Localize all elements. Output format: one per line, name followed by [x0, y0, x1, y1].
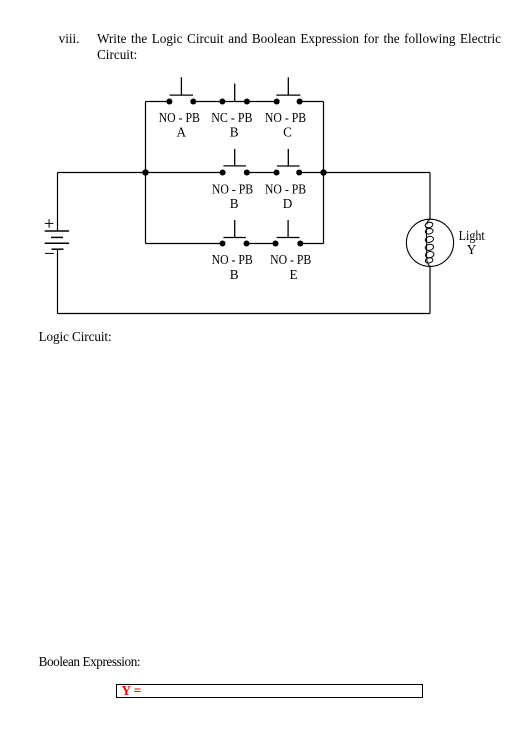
push button NO-PB E — [273, 220, 304, 247]
push button NC-PB B (top) — [219, 84, 250, 105]
push button NO-PB B (middle) — [220, 149, 250, 176]
header line 1 justified — [97, 31, 501, 46]
svg-text:C: C — [283, 124, 292, 139]
battery B1 — [45, 219, 69, 253]
svg-text:Y: Y — [467, 242, 477, 257]
push button NO-PB A — [166, 77, 196, 104]
wire: right junction to light — [324, 172, 431, 174]
answer box — [116, 684, 424, 698]
header line 2 — [97, 47, 137, 62]
svg-text:NO - PB: NO - PB — [270, 252, 311, 267]
light Y coil — [425, 219, 435, 266]
label Y= — [122, 684, 142, 697]
wire: middle rung segment 2 — [247, 172, 277, 174]
svg-text:E: E — [289, 267, 297, 282]
wire: light bottom vertical — [429, 266, 431, 313]
Logic Circuit caption — [39, 329, 112, 344]
wire: light top vertical — [429, 173, 431, 220]
wire: bottom rung segment 2 — [247, 243, 276, 245]
node junction right — [320, 169, 326, 175]
wire: middle rung segment 1 — [146, 172, 223, 174]
node junction left — [142, 169, 148, 175]
svg-text:NO - PB: NO - PB — [265, 110, 306, 125]
svg-text:NO - PB: NO - PB — [159, 110, 200, 125]
wire: top rung segment 1 — [146, 101, 170, 103]
push button NO-PB C — [274, 77, 303, 104]
svg-text:NC - PB: NC - PB — [211, 110, 252, 125]
wire: top rung segment 2 (through NC-PB B) — [193, 101, 276, 103]
push button NO-PB B (bottom) — [220, 220, 250, 247]
wire: top rung segment 3 — [300, 101, 324, 103]
svg-text:Light: Light — [459, 228, 486, 243]
light Y lamp circle — [406, 219, 453, 266]
svg-text:D: D — [283, 196, 293, 211]
push button NO-PB D — [274, 149, 303, 176]
svg-text:B: B — [230, 196, 239, 211]
wire: bottom rung segment 3 — [300, 243, 323, 245]
header item number — [59, 31, 80, 46]
wire: battery to left junction — [58, 172, 146, 174]
wire: right rail — [323, 102, 325, 244]
svg-text:B: B — [230, 267, 239, 282]
wire: bottom rung segment 1 — [146, 243, 223, 245]
svg-text:NO - PB: NO - PB — [212, 252, 253, 267]
svg-text:NO - PB: NO - PB — [212, 181, 253, 196]
svg-text:B: B — [230, 124, 239, 139]
wire: battery bottom vertical — [57, 249, 59, 313]
svg-text:A: A — [177, 124, 187, 139]
Boolean Expression caption — [39, 654, 141, 669]
svg-text:NO - PB: NO - PB — [265, 181, 306, 196]
wire: battery top vertical — [57, 173, 59, 232]
wire: left rail — [145, 102, 147, 244]
wire: middle rung segment 3 — [299, 172, 323, 174]
wire: bottom return — [58, 313, 431, 315]
